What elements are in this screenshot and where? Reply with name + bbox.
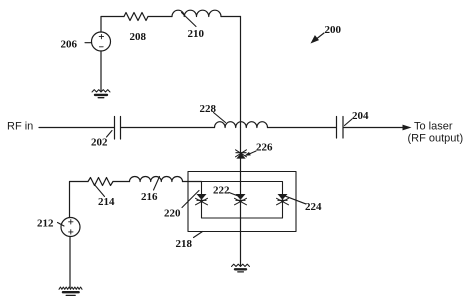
varactor 224 [277, 194, 289, 205]
wire: vertical bias rail (top rail down to RF line) [240, 17, 242, 128]
wire: source 212 to ground [69, 237, 71, 289]
label 228 leader line [214, 113, 226, 123]
svg-text:204: 204 [352, 110, 369, 122]
svg-text:226: 226 [256, 142, 273, 154]
inductor 228 [215, 122, 268, 128]
label 210 leader line [182, 13, 197, 27]
ground (below source 212) [59, 287, 82, 295]
svg-text:210: 210 [188, 28, 205, 40]
wire: capacitor 202 to inductor 228 [121, 127, 215, 129]
svg-text:228: 228 [200, 103, 217, 115]
svg-text:222: 222 [213, 185, 230, 197]
wire: inductor 216 into box 218 to anode loop [183, 181, 202, 183]
wire: vertical bias rail through box 218 down to ground [240, 200, 242, 266]
svg-text:(RF output): (RF output) [408, 133, 464, 145]
capacitor 204 [337, 117, 344, 139]
wire: inductor 210 to top of vertical bias rail [221, 16, 241, 18]
svg-text:214: 214 [98, 196, 115, 208]
wire: resistor 214 to inductor 216 [113, 181, 130, 183]
svg-text:To laser: To laser [414, 121, 453, 133]
wire: top rail from source 206 up and right to resistor 208 [101, 17, 124, 33]
wire: resistor 208 to inductor 210 [148, 16, 172, 18]
svg-text:202: 202 [91, 137, 108, 149]
capacitor 202 [115, 117, 121, 140]
label 214 leader line [94, 184, 105, 197]
resistor 208 [124, 13, 148, 21]
varactor 226 [236, 150, 247, 159]
varactor 222 [235, 194, 247, 205]
svg-text:208: 208 [130, 31, 147, 43]
wire: vertical bias rail (RF line down to varactor 226) [240, 128, 242, 153]
svg-text:RF in: RF in [7, 121, 33, 133]
label 226 leader line with arrowhead [245, 151, 257, 156]
label 212 leader line [58, 223, 65, 227]
box 218 (varactor bank) [188, 172, 296, 232]
wire: lower bias rail from source 212 up and right to resistor 214 [70, 182, 89, 218]
label 222 leader line [229, 193, 240, 197]
svg-text:218: 218 [176, 238, 193, 250]
wire: source 206 to ground [100, 51, 102, 92]
inductor 216 [130, 176, 183, 181]
svg-text:200: 200 [325, 24, 342, 36]
svg-text:220: 220 [164, 208, 181, 220]
wire: anode loop rectangle inside box 218 [202, 182, 283, 219]
resistor 214 [88, 178, 113, 186]
label 218 leader line [194, 232, 203, 238]
ground (below varactor bank) [232, 264, 250, 272]
label 216 leader line [154, 177, 160, 191]
label 202 leader line [107, 131, 113, 138]
inductor 210 [172, 10, 221, 16]
wire: RF in to capacitor 202 [39, 127, 114, 129]
label 206 leader line [85, 42, 92, 44]
wire: capacitor 204 to output arrow [344, 127, 405, 129]
svg-text:224: 224 [305, 201, 322, 213]
voltage source 212 [61, 218, 80, 237]
wire: vertical bias rail (varactor 226 into varactor bank box) [240, 159, 242, 194]
svg-text:216: 216 [141, 191, 158, 203]
voltage source 206 [92, 32, 111, 51]
svg-text:212: 212 [37, 218, 54, 230]
wire: inductor 228 to capacitor 204 [268, 127, 337, 129]
svg-text:206: 206 [61, 39, 78, 51]
output arrowhead [403, 125, 412, 131]
varactor 220 [196, 194, 208, 205]
ground (below source 206) [92, 90, 110, 98]
figure number 200 arrow [311, 33, 325, 44]
label 204 leader line [345, 119, 353, 126]
label 224 leader line [285, 196, 306, 204]
label 220 leader line [182, 191, 199, 208]
